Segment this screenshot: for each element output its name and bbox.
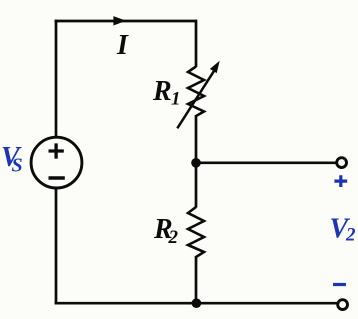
wire left vertical (top of source) [55, 20, 58, 137]
voltage source VS circle [31, 137, 82, 188]
R1 wiper arrow shaft [177, 70, 214, 128]
terminal + (open circle) [337, 158, 347, 168]
wire node to + terminal [196, 161, 336, 164]
svg-text:1: 1 [171, 89, 181, 110]
current arrow I [113, 16, 126, 25]
wire bottom horizontal [55, 302, 338, 305]
wire top horizontal [55, 20, 196, 23]
plus polarity mark (blue) [334, 175, 347, 187]
minus sign inside source [49, 176, 65, 180]
node A (top junction) [191, 158, 201, 168]
plus sign inside source [49, 143, 64, 158]
svg-text:R: R [152, 76, 172, 107]
minus polarity mark (blue) [333, 283, 346, 286]
svg-text:2: 2 [345, 225, 356, 246]
resistor R1 (variable) zigzag [188, 67, 204, 117]
terminal - (open circle) [338, 300, 348, 310]
R1 wiper arrowhead [210, 61, 220, 73]
svg-text:I: I [116, 30, 129, 61]
svg-text:2: 2 [168, 227, 179, 248]
wire right vertical upper [195, 20, 198, 67]
wire below R2 [195, 256, 198, 303]
resistor R2 zigzag [188, 207, 204, 257]
wire left vertical (below source) [55, 188, 58, 304]
node B (bottom junction) [192, 298, 202, 308]
svg-text:S: S [12, 155, 23, 177]
wire between R1 and R2 [195, 115, 198, 208]
